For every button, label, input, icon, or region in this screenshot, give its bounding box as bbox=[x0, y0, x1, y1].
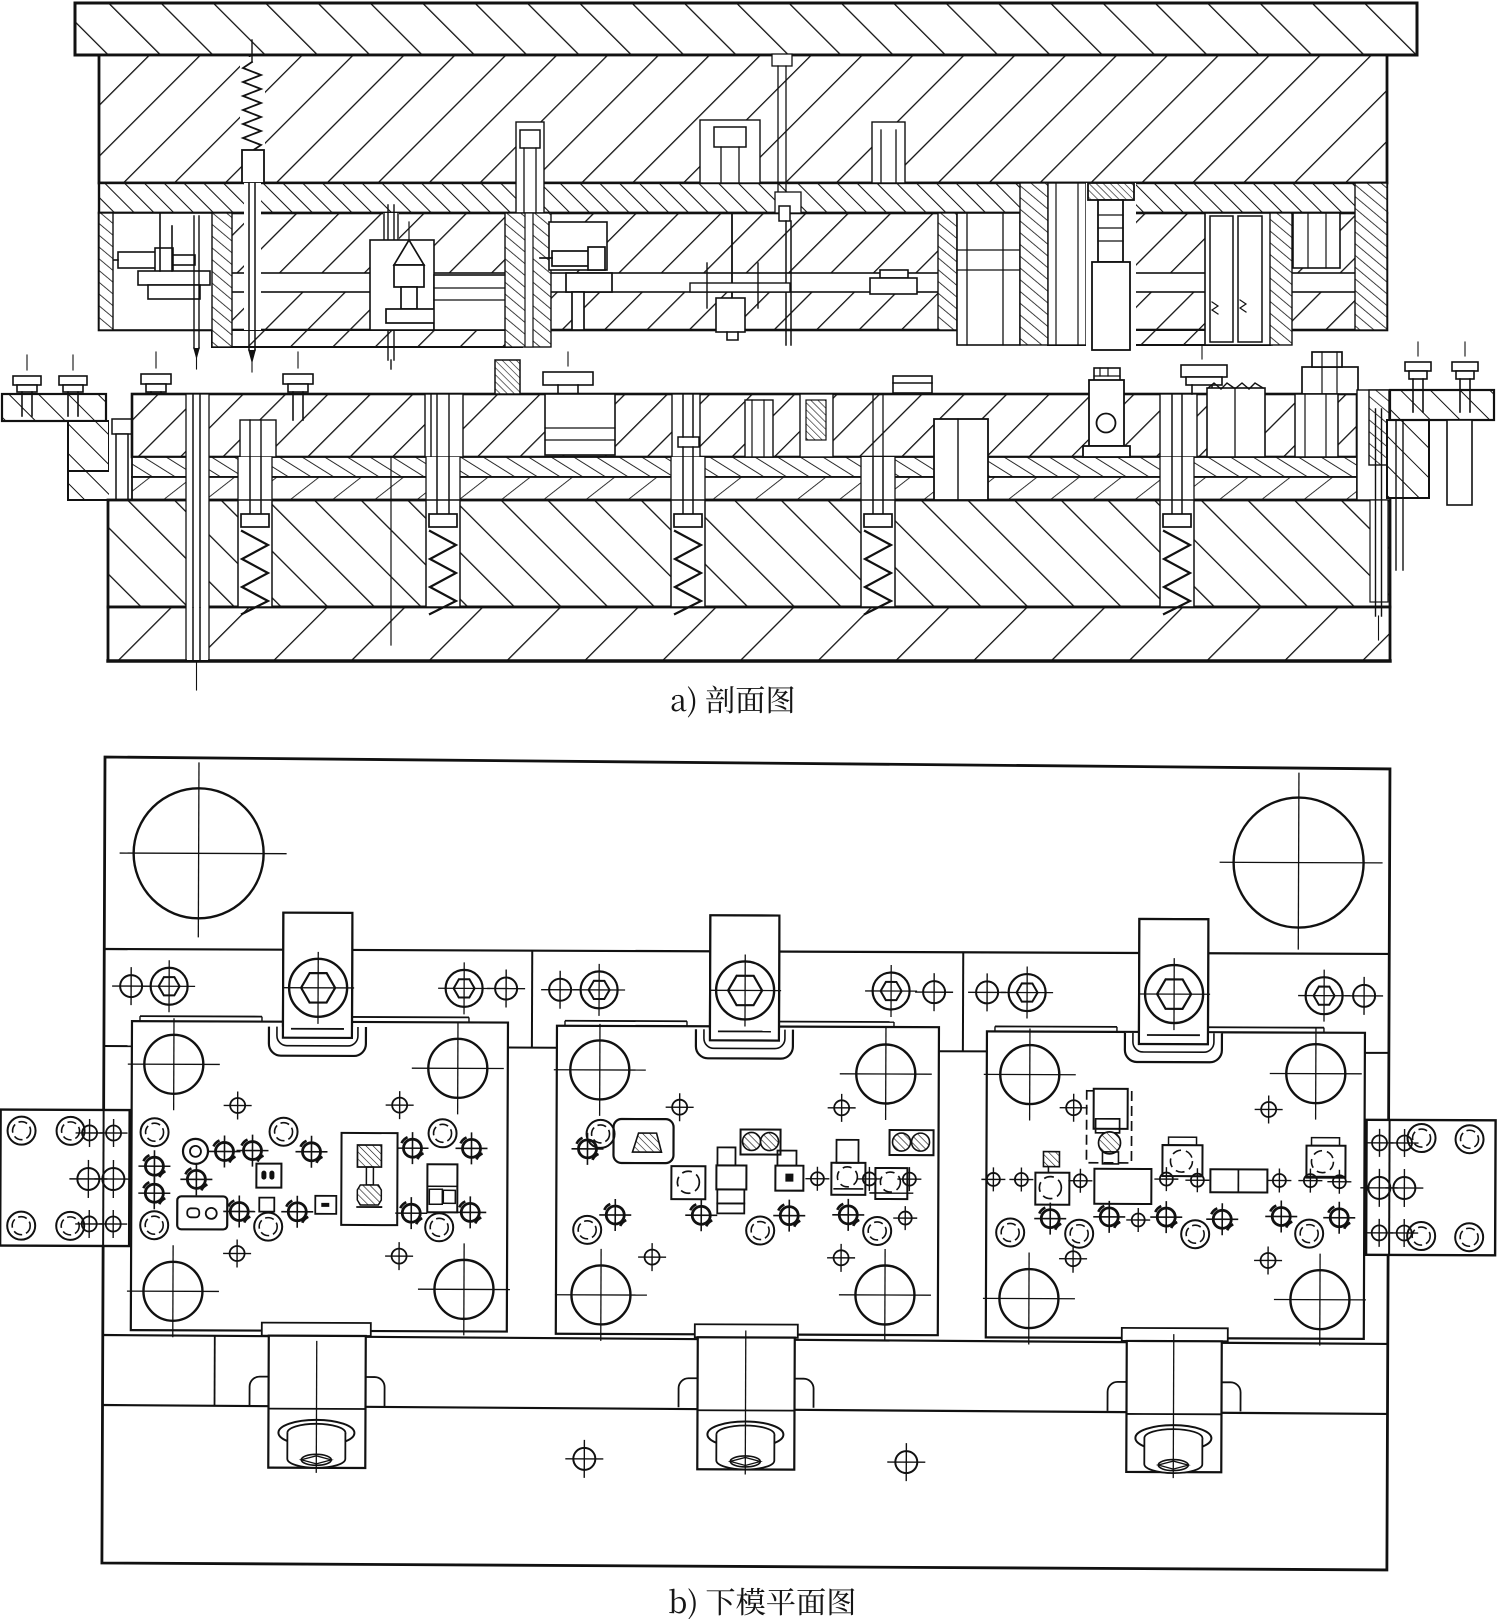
dense spacer column A bbox=[212, 213, 232, 347]
striker needle slot bbox=[244, 183, 261, 330]
right end dense column bbox=[1369, 390, 1389, 465]
bracket S2 bbox=[777, 1151, 796, 1166]
caption a bbox=[672, 686, 794, 718]
rail bottom between S1 S2 bbox=[508, 1047, 557, 1049]
pilot crosses S2 bbox=[666, 1093, 694, 1121]
counterbore slot D bbox=[516, 122, 544, 213]
wide screw above pocket I bbox=[1181, 346, 1227, 394]
strip portal gap bbox=[934, 419, 988, 500]
main die plate band bbox=[132, 394, 1357, 457]
rail screws row bbox=[112, 967, 150, 1005]
die pocket A with pin to spring1 bbox=[240, 420, 276, 457]
tall dashed punch S3 bbox=[1086, 1091, 1131, 1163]
caption b bbox=[669, 1588, 854, 1619]
right long pin bbox=[1376, 409, 1382, 640]
pilot crosses S1 bbox=[224, 1091, 252, 1119]
guide sleeve J pocket bbox=[1205, 213, 1272, 345]
small square2 S1 bbox=[315, 1196, 336, 1214]
white gap between sections bbox=[1048, 183, 1086, 345]
white pocket left end bbox=[112, 213, 215, 330]
screw D pocket bbox=[549, 222, 607, 270]
guide bush hole top-right bbox=[1219, 772, 1383, 950]
punch clamp strip bbox=[212, 273, 1387, 292]
lower base plate bbox=[108, 607, 1390, 661]
die pocket F bbox=[800, 394, 833, 457]
box with circle S3a bbox=[1035, 1173, 1069, 1205]
lower left rail plate bbox=[2, 394, 106, 421]
bottom clamp tab 2 bbox=[678, 1324, 814, 1475]
thin ejector pin left bbox=[194, 216, 199, 369]
hatched pair box S2a bbox=[740, 1129, 780, 1154]
screw above dowel bbox=[283, 352, 313, 420]
left side tab bbox=[0, 1110, 133, 1247]
rail bottom right of S3 bbox=[1365, 1052, 1389, 1054]
die block H column with round hole bbox=[1083, 368, 1130, 457]
screw above portal bbox=[893, 376, 932, 393]
plate bump G bbox=[870, 270, 917, 294]
dowel pin column bbox=[186, 394, 209, 660]
adjuster S2b bbox=[875, 1168, 907, 1199]
base bottom edge bbox=[108, 659, 1390, 662]
small cross S2 bbox=[805, 1167, 829, 1191]
die pocket E bbox=[745, 400, 773, 457]
die pocket I pin to spring5 bbox=[1160, 394, 1197, 457]
wide flat screw above die bbox=[543, 352, 593, 394]
stock guide rail top line bbox=[104, 949, 1389, 954]
step block C bbox=[434, 275, 524, 330]
lower die shoe bbox=[108, 500, 1390, 607]
die pocket K right bbox=[1295, 394, 1338, 457]
punch stack S2 bbox=[717, 1147, 735, 1165]
small square S1 bbox=[259, 1198, 274, 1212]
spring 3 bbox=[671, 457, 705, 614]
clamp tab 2 top bbox=[696, 915, 794, 1058]
dense spacer column C bbox=[938, 213, 957, 330]
box with circle S3b bbox=[1162, 1145, 1202, 1176]
screw on left plate 2 bbox=[59, 355, 87, 416]
punch screws S3 row bbox=[1034, 1203, 1066, 1235]
lower die base plate outline bbox=[102, 757, 1390, 1570]
rail joint line bbox=[214, 1335, 216, 1405]
striker guide bush bbox=[242, 150, 264, 183]
bottom band cross hole left bbox=[565, 1440, 603, 1478]
lower rail top line bbox=[103, 1335, 1388, 1344]
punch retainer pocket E bbox=[716, 298, 745, 340]
big screw I pocket bbox=[1086, 183, 1136, 350]
circle dot S1 bbox=[183, 1139, 208, 1164]
dense spacer column D bbox=[1020, 183, 1048, 345]
station block 2 bbox=[553, 1021, 939, 1342]
die insert slot S1 bbox=[177, 1196, 227, 1229]
punch B pocket bbox=[370, 240, 434, 330]
guide sleeve J parts bbox=[1210, 216, 1262, 342]
ejector pin E with hook bbox=[772, 54, 801, 345]
punch area E seam bbox=[731, 213, 733, 330]
ejector pin slot bbox=[383, 213, 399, 330]
spring 5 bbox=[1160, 457, 1194, 614]
adjuster S2a bbox=[836, 1140, 858, 1163]
dense spacer column B bbox=[505, 213, 551, 347]
counterbore slot E bbox=[700, 120, 760, 183]
stepped pocket H bbox=[957, 213, 1020, 345]
die insert 00 S1 bbox=[256, 1164, 281, 1188]
die pocket D pin to spring3 bbox=[672, 394, 700, 457]
box with circle S3c bbox=[1306, 1146, 1345, 1178]
right rail pin bbox=[1396, 420, 1403, 570]
punch screws S1 bbox=[208, 1135, 240, 1167]
screw on left plate 1 bbox=[13, 355, 41, 416]
guide bush hole top-left bbox=[119, 762, 287, 938]
striker needle bbox=[249, 183, 255, 372]
die pocket J jagged bbox=[1207, 388, 1265, 457]
right end white gap column bbox=[1357, 390, 1390, 500]
punch window S1 bbox=[341, 1133, 397, 1225]
small crosses row S3 bbox=[981, 1167, 1005, 1191]
laminate plate 2 bbox=[132, 477, 1357, 500]
strip plate E bbox=[690, 263, 790, 308]
right bracket block bbox=[1387, 420, 1429, 498]
two cell rect S3 bbox=[1210, 1169, 1267, 1192]
rail bottom left stub bbox=[104, 1045, 132, 1047]
pilot crosses S3 bbox=[1060, 1094, 1088, 1122]
wide rect S3 bbox=[1094, 1169, 1151, 1204]
punch holder band bbox=[99, 213, 1387, 330]
hatched pair box S2b bbox=[889, 1130, 933, 1155]
long thin pin at x391 lower bbox=[390, 457, 392, 645]
right plate screw 1 bbox=[1405, 342, 1431, 412]
striker spring bbox=[243, 62, 261, 151]
punch box right S1 bbox=[427, 1164, 457, 1212]
dense column left end bbox=[99, 213, 113, 330]
bottom clamp tab 1 bbox=[249, 1323, 385, 1474]
top clamping plate bbox=[75, 3, 1417, 55]
bracket under left screw bbox=[138, 213, 210, 299]
laminate plate 1 bbox=[132, 457, 1357, 477]
rail divider 1 bbox=[531, 951, 533, 1048]
dowel rings S3 bbox=[996, 1218, 1024, 1246]
portal hidden pins bbox=[873, 394, 883, 521]
upper die holder plate bbox=[99, 55, 1387, 183]
station block 3 bbox=[983, 1026, 1367, 1345]
rail divider 2 bbox=[962, 952, 964, 1051]
right plate screw 2 bbox=[1452, 342, 1478, 412]
bottom clamp tab 3 bbox=[1107, 1328, 1241, 1479]
tall block above right bbox=[1302, 352, 1358, 394]
spring 2 bbox=[426, 457, 460, 614]
upper backing plate bbox=[99, 183, 1387, 213]
left pin slot bbox=[109, 394, 132, 590]
punch B screw bbox=[386, 222, 448, 323]
dowel rings S1 bbox=[141, 1118, 169, 1146]
hatched screw head above die bbox=[495, 360, 520, 394]
clamp tab 3 top bbox=[1125, 919, 1223, 1062]
striker spring slot bbox=[240, 57, 265, 153]
right rail block below bbox=[1447, 420, 1472, 505]
knurled screw S3 bbox=[1043, 1152, 1059, 1167]
screw on bracket bbox=[141, 352, 171, 420]
horizontal screw left bbox=[108, 248, 195, 272]
bottom band cross hole right bbox=[887, 1443, 925, 1481]
counterbore slot G bbox=[872, 122, 905, 183]
rail bottom between S2 S3 bbox=[939, 1050, 987, 1052]
dowel rings S2 bbox=[587, 1120, 615, 1148]
dense column right mid bbox=[1270, 213, 1292, 345]
lower rail second line bbox=[102, 1405, 1387, 1414]
punch holder lower step left bbox=[212, 330, 522, 347]
small pocket K bbox=[1293, 213, 1340, 268]
screw D bbox=[540, 247, 612, 330]
left stepped pin bbox=[110, 419, 132, 600]
dowel pin bbox=[193, 394, 200, 690]
punch screws S2 bbox=[571, 1133, 603, 1165]
die pocket B with pin to spring2 bbox=[425, 394, 463, 457]
spring 1 bbox=[238, 457, 272, 614]
dense column right end bbox=[1355, 183, 1387, 330]
punch holder lower step right bbox=[1048, 330, 1270, 345]
right side tab bbox=[1360, 1120, 1496, 1256]
left bracket vertical bbox=[68, 421, 109, 500]
box with circle S2 bbox=[671, 1166, 705, 1199]
base white gap under dowel bbox=[187, 608, 208, 660]
die pocket C white block bbox=[545, 394, 615, 455]
left bracket foot bbox=[68, 471, 132, 500]
big screw I bbox=[1088, 183, 1134, 350]
spring 4 bbox=[861, 457, 895, 614]
clamp tab 1 top bbox=[269, 913, 367, 1056]
station block 1 bbox=[127, 1016, 511, 1338]
feed insert S2 bbox=[613, 1119, 673, 1163]
ejector pin bbox=[384, 205, 398, 369]
right rail plate bbox=[1390, 390, 1494, 420]
